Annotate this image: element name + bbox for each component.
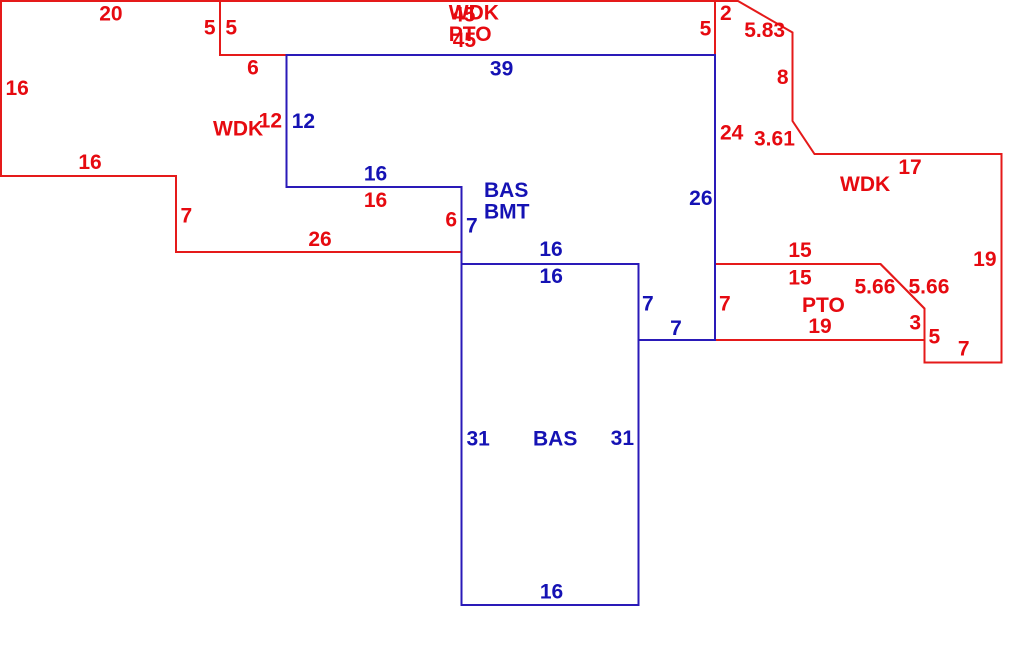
svg-text:17: 17 (898, 156, 921, 179)
svg-text:16: 16 (540, 265, 563, 288)
blue polygon BAS BMT upper (287, 55, 716, 340)
svg-text:39: 39 (490, 57, 513, 80)
svg-text:WDK: WDK (840, 173, 890, 196)
svg-text:7: 7 (719, 293, 731, 316)
svg-text:16: 16 (78, 151, 101, 174)
svg-text:7: 7 (670, 317, 682, 340)
red polygon PTO right (715, 264, 925, 340)
red polygon WDK right (715, 1, 1002, 363)
svg-text:BAS: BAS (533, 428, 577, 451)
svg-text:5.66: 5.66 (909, 276, 950, 299)
svg-text:16: 16 (364, 163, 387, 186)
svg-text:19: 19 (808, 315, 831, 338)
red polygon WDK left (1, 1, 462, 252)
svg-text:12: 12 (292, 110, 315, 133)
svg-text:PTO: PTO (802, 294, 845, 317)
svg-text:2: 2 (720, 2, 732, 25)
svg-text:15: 15 (788, 239, 812, 262)
svg-text:24: 24 (720, 122, 744, 145)
svg-text:19: 19 (973, 248, 996, 271)
svg-text:31: 31 (611, 427, 635, 450)
svg-text:5: 5 (204, 17, 216, 40)
red polygon WDK/PTO top strip (220, 1, 715, 55)
svg-text:BMT: BMT (484, 201, 530, 224)
svg-text:5.83: 5.83 (744, 19, 785, 42)
svg-text:45: 45 (453, 29, 477, 52)
svg-text:16: 16 (540, 581, 563, 604)
svg-text:15: 15 (788, 267, 812, 290)
svg-text:26: 26 (689, 187, 712, 210)
svg-text:16: 16 (6, 77, 29, 100)
svg-text:3.61: 3.61 (754, 128, 795, 151)
svg-text:7: 7 (642, 293, 654, 316)
svg-text:WDK: WDK (213, 118, 263, 141)
svg-text:BAS: BAS (484, 179, 528, 202)
svg-text:5: 5 (700, 18, 712, 41)
blue polygon BAS lower (462, 264, 639, 605)
svg-text:6: 6 (445, 209, 457, 232)
svg-text:5.66: 5.66 (855, 276, 896, 299)
svg-text:31: 31 (467, 428, 491, 451)
svg-text:12: 12 (259, 110, 282, 133)
svg-text:5: 5 (929, 326, 941, 349)
svg-text:7: 7 (958, 338, 970, 361)
svg-text:26: 26 (308, 228, 331, 251)
svg-text:16: 16 (364, 189, 387, 212)
svg-text:16: 16 (539, 238, 562, 261)
svg-text:5: 5 (225, 17, 237, 40)
svg-text:8: 8 (777, 66, 789, 89)
svg-text:3: 3 (909, 312, 921, 335)
svg-text:7: 7 (466, 215, 478, 238)
svg-text:6: 6 (247, 57, 259, 80)
svg-text:20: 20 (99, 2, 122, 25)
svg-text:7: 7 (181, 205, 193, 228)
